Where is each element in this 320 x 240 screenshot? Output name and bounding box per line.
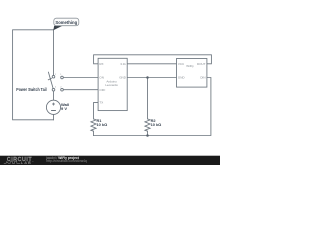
svg-text:LAB: LAB: [21, 161, 32, 165]
svg-text:DIN: DIN: [200, 76, 205, 80]
svg-text:Something: Something: [55, 20, 77, 25]
svg-text:10 kΩ: 10 kΩ: [151, 122, 162, 127]
svg-text:TX: TX: [99, 101, 103, 105]
switch SW1 blade: [48, 72, 53, 89]
node divider junction dot: [146, 134, 149, 137]
voltage source V1 Wall 9V: [46, 100, 60, 114]
svg-text:9 V: 9 V: [61, 106, 67, 111]
svg-text:3.3v: 3.3v: [120, 62, 126, 66]
terminal 1 control +: [61, 76, 64, 79]
wire ON control: [63, 77, 98, 79]
wire GND net: [127, 77, 176, 79]
resistor R2: [145, 119, 150, 131]
svg-text:VCC: VCC: [178, 62, 185, 66]
svg-text:GND: GND: [119, 76, 127, 80]
resistor R1: [91, 119, 96, 131]
svg-text:DOUT: DOUT: [197, 62, 206, 66]
annotation flag Something: [53, 18, 79, 30]
svg-text:Leonardo: Leonardo: [105, 83, 118, 87]
wire DIN down to divider node: [94, 78, 211, 136]
terminal 2 control -: [61, 88, 64, 91]
wire R1 bottom lead: [93, 131, 95, 135]
watermark bar: [0, 156, 220, 165]
wire source bottom: [53, 114, 55, 119]
svg-text:OFF: OFF: [99, 88, 105, 92]
IC U1 Arduino Leonardo box: [98, 58, 127, 110]
svg-text:WiFly: WiFly: [186, 64, 194, 68]
wire switch top: [53, 30, 55, 76]
svg-text:GND: GND: [178, 76, 186, 80]
wire TX to R1: [94, 103, 99, 119]
wire RX to DOUT top run: [94, 55, 212, 64]
svg-text:Power Switch Tail: Power Switch Tail: [16, 87, 46, 92]
wire R2 bottom lead: [147, 131, 149, 135]
wire 3.3v to VCC: [127, 63, 176, 65]
switch terminal circles: [52, 75, 55, 91]
wire OFF control: [63, 89, 98, 91]
svg-text:ON: ON: [99, 76, 104, 80]
node GND junction dot: [146, 76, 149, 79]
wire GND junction down to R2: [147, 78, 149, 119]
IC U2 WiFly box: [177, 59, 207, 88]
svg-text:™: ™: [32, 160, 34, 163]
svg-text:RX: RX: [99, 62, 103, 66]
wire switch bottom to source: [53, 91, 55, 100]
CircuitLab logo: [4, 157, 34, 165]
svg-text:http://circuitlab.com/c6vw4q: http://circuitlab.com/c6vw4q: [46, 159, 87, 163]
wire left loop: [13, 30, 54, 120]
svg-text:10 kΩ: 10 kΩ: [97, 122, 108, 127]
